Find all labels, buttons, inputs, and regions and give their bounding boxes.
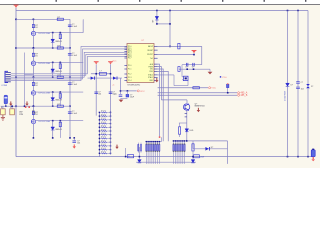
wire (11, 106, 13, 109)
pin 1 of J1 (6, 72, 11, 74)
svg-text:104: 104 (77, 143, 80, 145)
ground marker red (311, 157, 315, 161)
wire filter col 1 (95, 64, 97, 115)
svg-text:D?: D? (291, 84, 293, 86)
sheet border (0, 3, 320, 5)
wire res column (59, 92, 61, 106)
junction (52, 137, 54, 139)
ground GND5 (119, 100, 124, 103)
wire (179, 134, 181, 137)
junction (156, 23, 158, 25)
resistor RB2 (174, 141, 176, 164)
svg-text:LED: LED (190, 130, 194, 132)
node rail tap 2 (169, 10, 171, 12)
capacitor CB2b plates (296, 87, 300, 88)
svg-text:1/8W: 1/8W (200, 156, 204, 158)
pin right 4 of U1 (154, 57, 158, 59)
wire Q1 emitter down (186, 110, 188, 141)
svg-text:P1.4: P1.4 (128, 80, 132, 82)
wire VCC drop (169, 11, 171, 47)
LED D3 (51, 98, 55, 101)
resistor RA3 (149, 142, 151, 164)
svg-text:IN4148: IN4148 (55, 41, 62, 43)
wire xtal mid (179, 68, 210, 70)
junction (110, 73, 112, 75)
resistor RB1 (172, 141, 174, 164)
wire diode branch (156, 11, 158, 24)
resistor R43 (59, 122, 61, 127)
junction (95, 73, 97, 75)
junction (60, 91, 62, 93)
svg-text:IN4148: IN4148 (55, 99, 62, 101)
power label VCC (209, 87, 217, 90)
svg-text:TLP521-1GB: TLP521-1GB (38, 33, 51, 35)
wire (82, 120, 84, 122)
svg-text:R? 4K7: R? 4K7 (101, 114, 106, 116)
pin 4 of J1 (6, 77, 11, 79)
pin 5 of J1 (6, 79, 11, 81)
node feed3 (15, 76, 17, 78)
junction (52, 32, 54, 34)
wire RS485 B (158, 94, 237, 96)
junction (169, 23, 171, 25)
ground arrow GND6 (115, 145, 118, 149)
LED D4 (51, 127, 55, 130)
wire feed row 2 (16, 47, 70, 49)
node ground (287, 156, 289, 158)
svg-text:TLP521-1GB: TLP521-1GB (38, 121, 51, 123)
junction (69, 47, 71, 49)
wire xtal top (182, 64, 202, 66)
capacitor C6 22pF (193, 63, 194, 67)
svg-text:104: 104 (301, 88, 304, 90)
pin left 6 of U1 (124, 54, 127, 56)
resistor R33 (59, 94, 61, 99)
wire opto2 output (36, 61, 83, 63)
capacitor C31 0.1uF (68, 83, 72, 84)
svg-text:485_B: 485_B (240, 94, 247, 97)
wire cap branch (69, 48, 71, 77)
wire bus connector-to-MCU (11, 54, 125, 75)
wire cap branch (69, 77, 71, 106)
wire feed row 1 (16, 18, 70, 20)
TVS diode DB2 (306, 84, 310, 88)
junction (24, 105, 26, 107)
svg-text:R? 4K7: R? 4K7 (101, 111, 106, 113)
svg-text:R? 4K7: R? 4K7 (101, 152, 106, 154)
wire (186, 100, 188, 103)
ground GND3 bars (1, 115, 5, 120)
resistor RA4 (151, 142, 153, 164)
resistor RS3 (99, 119, 110, 121)
junction (192, 156, 194, 158)
svg-text:D?: D? (311, 86, 313, 88)
fuse F2 (193, 155, 199, 158)
wire (193, 148, 228, 150)
pin left 4 of U1 (124, 50, 127, 52)
wire VCC stem (15, 8, 17, 11)
junction (73, 137, 75, 139)
wire (32, 106, 34, 119)
resistor RA8 (158, 142, 160, 164)
junction (52, 62, 54, 64)
junction (193, 68, 195, 70)
svg-text:MMBT3904: MMBT3904 (195, 106, 205, 108)
MCU U1 STC89C52 (127, 44, 154, 83)
svg-text:R? 4K7: R? 4K7 (101, 140, 106, 142)
capacitor C41 104 (72, 141, 76, 142)
resistor RS6 (99, 130, 110, 132)
svg-text:0.1uF: 0.1uF (72, 26, 78, 28)
wire (182, 79, 183, 81)
svg-text:TLP521-1GB: TLP521-1GB (38, 63, 51, 65)
pin 2 of J1 (6, 73, 11, 75)
svg-text:10: 10 (128, 156, 130, 158)
wire res column (59, 33, 61, 48)
junction (33, 19, 35, 21)
svg-text:STC89C52RC: STC89C52RC (127, 85, 140, 87)
wire (91, 73, 111, 75)
node ground (307, 156, 309, 158)
wire riser 1 (24, 53, 26, 107)
resistor R23 (59, 64, 61, 69)
resistor R11 1K (32, 25, 34, 28)
svg-text:RTN: RTN (19, 114, 23, 116)
pin left 5 of U1 (124, 52, 127, 54)
wire MCU right bus (158, 71, 169, 141)
resistor RS9 (99, 141, 110, 143)
net label 485_B (238, 94, 248, 97)
svg-text:C?: C? (185, 67, 187, 69)
resistor R11 10K (178, 67, 180, 72)
wire EA row (158, 45, 202, 47)
wire LED column (52, 92, 54, 106)
wire (174, 85, 188, 87)
wire (227, 141, 229, 164)
resistor RA0 (140, 143, 142, 153)
svg-text:P1.3: P1.3 (128, 77, 132, 79)
svg-text:C?: C? (301, 82, 303, 84)
relay K1 (1, 109, 6, 115)
svg-text:R? 4K7: R? 4K7 (101, 118, 106, 120)
pin tick (185, 113, 187, 115)
svg-text:P1.2: P1.2 (128, 74, 132, 76)
optocoupler U4 (31, 119, 35, 123)
resistor R42 (57, 105, 63, 107)
capacitor CB3 100uF (307, 11, 309, 85)
wire bottom ground rail (16, 156, 312, 158)
resistor RA1 (145, 142, 147, 164)
capacitor C8 104 (109, 92, 113, 93)
svg-text:C?: C? (192, 67, 194, 69)
capacitor CB1 470uF/50V (287, 11, 289, 84)
LED D11 (205, 147, 209, 151)
wire (82, 61, 84, 63)
resistor RB3 (176, 141, 178, 164)
resistor RS4 (99, 123, 110, 125)
svg-text:R? 4K7: R? 4K7 (101, 129, 106, 131)
pin 6 of J1 (6, 81, 11, 83)
resistor R12 (57, 18, 63, 20)
pin right 11 of U1 (154, 80, 158, 82)
svg-text:+5: +5 (112, 84, 114, 86)
junction (139, 156, 141, 158)
svg-text:RD/P37: RD/P37 (147, 54, 153, 56)
capacitor C21 0.1uF (68, 54, 72, 55)
wire (120, 98, 122, 99)
node ground (297, 156, 299, 158)
junction (33, 76, 35, 78)
pin right 9 of U1 (154, 74, 158, 76)
resistor RS11 (99, 149, 110, 151)
power flag VCC1 (192, 50, 197, 53)
resistor RB4 (178, 141, 180, 164)
diode DB1 (286, 83, 290, 86)
terminal BT1 (311, 150, 315, 157)
junction (60, 32, 62, 34)
resistor RS2 (99, 115, 110, 117)
capacitor C9 104 (119, 95, 123, 96)
wire cap branch (69, 19, 71, 48)
wire opto bottom (32, 36, 34, 48)
fuse F1 (127, 155, 133, 158)
pin left 10 of U1 (124, 68, 127, 70)
wire channel column x83 (82, 19, 84, 32)
wire corner down (201, 46, 203, 64)
pin left 9 of U1 (124, 65, 127, 67)
resistor R21 1K (32, 53, 34, 56)
junction (33, 47, 35, 49)
wire (125, 148, 127, 157)
LED D2 (51, 69, 55, 72)
power marker (25, 106, 27, 108)
svg-text:M7: M7 (153, 20, 155, 23)
optocoupler U2 (31, 61, 35, 65)
ground GND4 (208, 72, 213, 75)
wire (173, 75, 175, 86)
resistor RA5 (153, 142, 155, 164)
resistor R12 (193, 87, 200, 89)
wire (121, 90, 137, 92)
resistor RS8 (99, 137, 110, 139)
resistor RA7 (157, 142, 159, 164)
wire filter col 2 (110, 64, 112, 115)
junction (11, 105, 13, 107)
junction (33, 105, 35, 107)
svg-text:R? 4K7: R? 4K7 (101, 144, 106, 146)
node reset (193, 54, 195, 56)
wire (157, 23, 170, 25)
wire (181, 65, 183, 77)
wire RST row (158, 87, 208, 89)
svg-text:104: 104 (98, 93, 101, 95)
pin right 5 of U1 (154, 63, 158, 65)
resistor R13 (179, 127, 181, 134)
resistor R13 (59, 34, 61, 39)
wire res column (59, 121, 61, 138)
node feed1 (15, 19, 17, 21)
wire bank A top (145, 141, 161, 143)
wire (227, 88, 229, 93)
svg-text:TLP521-1GB: TLP521-1GB (38, 93, 51, 95)
connector J1 HDR input (5, 71, 8, 82)
wire (126, 91, 128, 95)
pin right 8 of U1 (154, 70, 158, 72)
junction (52, 91, 54, 93)
wire (32, 77, 34, 91)
junction (186, 68, 188, 70)
pin 3 of J1 (6, 75, 11, 77)
svg-text:P1.7: P1.7 (128, 58, 132, 60)
optocoupler U3 (31, 91, 35, 95)
resistor RS7 (99, 134, 110, 136)
svg-text:0.1uF: 0.1uF (72, 84, 78, 86)
svg-text:470uF/50V: 470uF/50V (284, 90, 286, 101)
svg-text:C?: C? (114, 94, 116, 96)
ground arrow at U1 pin20 (155, 78, 158, 82)
pin left 12 of U1 (124, 77, 127, 79)
junction (60, 62, 62, 64)
pin right 1 of U1 (154, 45, 158, 47)
diode D5 M7 (155, 16, 158, 20)
wire stack left col (98, 112, 100, 157)
power flag +12V (14, 5, 19, 8)
crystal Y1 (183, 76, 188, 80)
pin right 7 of U1 (154, 68, 158, 70)
wire (121, 97, 128, 99)
wire stack right col (110, 112, 112, 155)
svg-text:P1.1: P1.1 (128, 69, 132, 71)
junction (127, 90, 129, 92)
wire bank A lower bus (136, 161, 196, 163)
pin right 10 of U1 (154, 76, 158, 78)
svg-text:EA/VP: EA/VP (148, 45, 154, 48)
ground arrow under C41 (73, 144, 76, 148)
node EA (169, 46, 171, 48)
svg-text:IN4148: IN4148 (55, 129, 62, 131)
wire (5, 104, 7, 106)
wire opto3 output (36, 91, 83, 93)
svg-text:R? 4K7: R? 4K7 (101, 122, 106, 124)
resistor R22 (57, 47, 63, 49)
capacitor CB2a plates (296, 82, 300, 83)
junction (33, 47, 35, 49)
node rail (287, 10, 289, 12)
wire (179, 123, 181, 127)
power flag VCC2 (94, 61, 99, 64)
relay K2 (10, 109, 15, 115)
wire feed row 4 (16, 105, 70, 107)
wire (193, 53, 195, 54)
pin left 2 of U1 (124, 47, 127, 49)
wire gnd stub (209, 69, 211, 72)
wire cap branch (69, 106, 71, 138)
node bank B (186, 140, 188, 142)
resistor R41 1K (32, 111, 34, 114)
diode D7 (91, 77, 95, 80)
wire opto4 output (36, 120, 83, 122)
wire relay feed (1, 105, 16, 107)
svg-text:RESET: RESET (147, 50, 153, 52)
node feed4 (15, 105, 17, 107)
junction (125, 156, 127, 158)
junction (33, 76, 35, 78)
svg-text:R? 4K7: R? 4K7 (101, 148, 106, 150)
svg-text:D?: D? (211, 147, 213, 149)
wire riser 2 (25, 73, 34, 75)
resistor RB6 (182, 141, 184, 164)
wire LED column (52, 33, 54, 48)
pin left 3 of U1 (124, 49, 127, 51)
ground arrow GND2 (25, 101, 28, 105)
junction (52, 47, 54, 49)
resistor RB5 (180, 141, 182, 164)
capacitor C10 10uF (126, 94, 129, 97)
wire VCC node (120, 78, 122, 94)
wire to Q1 (161, 99, 187, 101)
wire bus connector-to-MCU (11, 56, 125, 73)
resistor RS12 (99, 152, 110, 154)
LED D1 (51, 39, 55, 42)
svg-text:CON8: CON8 (1, 85, 8, 87)
wire left rail (15, 11, 17, 157)
net label 485_A (238, 92, 248, 95)
pin left 1 of U1 (124, 45, 127, 47)
optocoupler U1 (31, 31, 35, 35)
junction (5, 105, 7, 107)
power label VCC2 (137, 90, 145, 93)
pin tick (185, 116, 187, 118)
wire (182, 76, 183, 78)
wire feed row 3 (16, 76, 70, 78)
svg-text:R? 4K7: R? 4K7 (101, 126, 106, 128)
wire (161, 137, 163, 141)
junction (69, 137, 71, 139)
resistor RA0 (137, 143, 139, 153)
resistor RS1 (99, 111, 110, 113)
pin left 13 of U1 (124, 80, 127, 82)
resistor RS5 (99, 126, 110, 128)
node feed2 (15, 47, 17, 49)
junction (33, 105, 35, 107)
ground arrow GND7 (197, 108, 200, 112)
power flag VCC3 (108, 61, 113, 64)
wire (192, 151, 194, 159)
node rail (297, 10, 299, 12)
wire LED column (52, 62, 54, 77)
pin right 6 of U1 (154, 66, 158, 68)
LED D10 (185, 129, 189, 132)
resistor R10 (178, 43, 180, 49)
wire (187, 81, 189, 86)
ground arrow GND1 (9, 101, 12, 105)
wire MCU right bus (158, 64, 160, 137)
wire MCU right bus (158, 69, 164, 141)
capacitor C7 104 (94, 92, 98, 93)
svg-text:P1.0: P1.0 (223, 77, 227, 79)
svg-text:VCC: VCC (211, 88, 216, 90)
wire (82, 20, 84, 32)
junction (120, 90, 122, 92)
diode D6 (227, 84, 229, 87)
svg-text:R? 4K7: R? 4K7 (101, 133, 106, 135)
resistor RA2 (147, 142, 149, 164)
wire (32, 48, 34, 61)
wire LED column (52, 121, 54, 138)
resistor RS10 (99, 145, 110, 147)
svg-text:IN4148: IN4148 (55, 71, 62, 73)
wire bus connector-to-MCU (11, 52, 125, 77)
